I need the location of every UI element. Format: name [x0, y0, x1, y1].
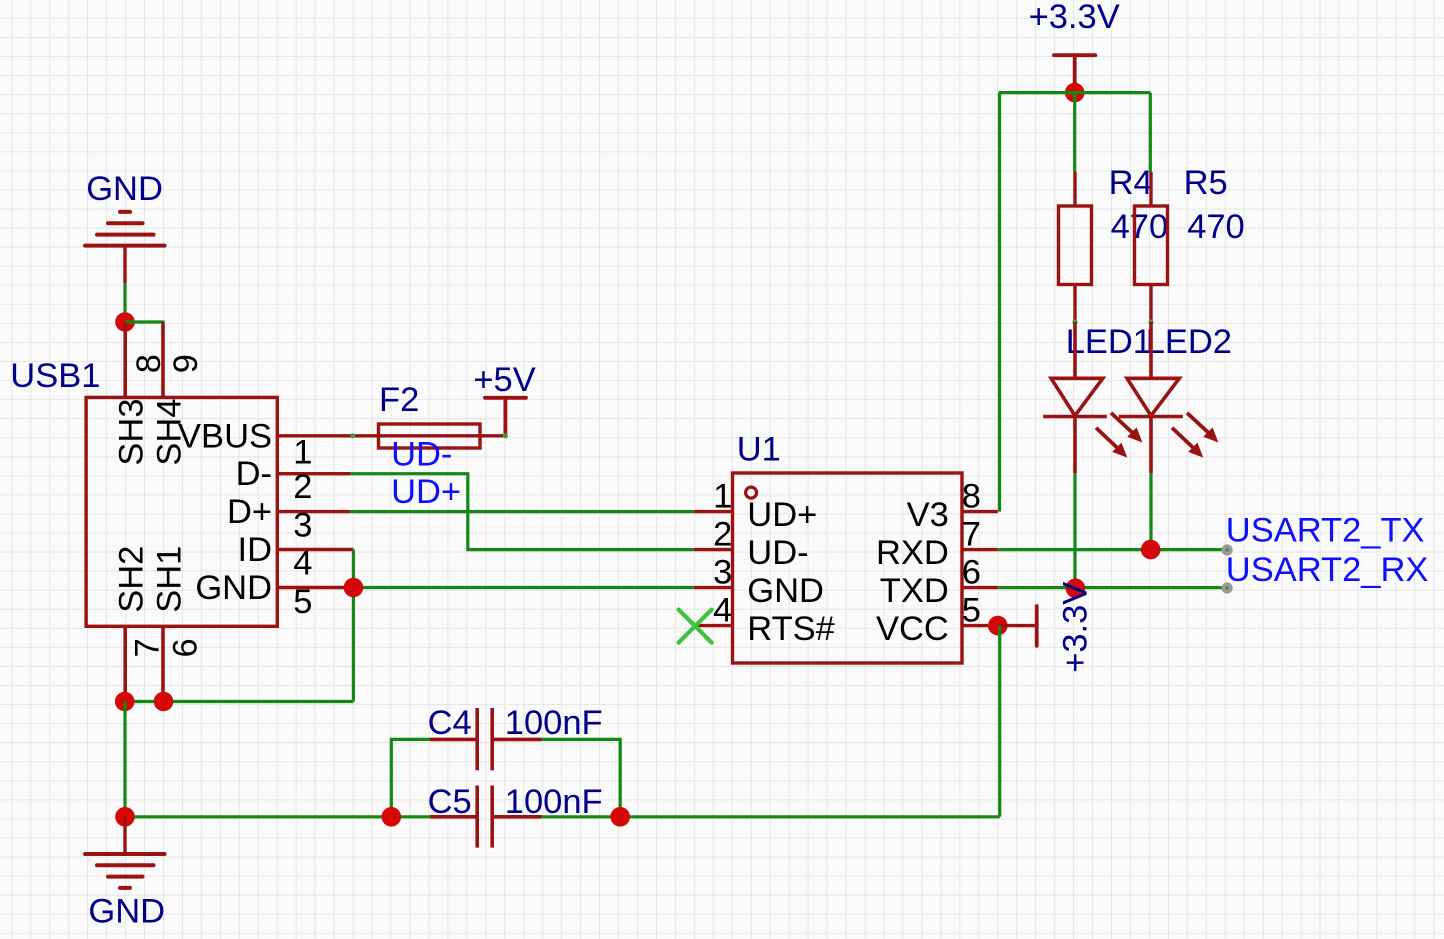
pin-end dot R5/LED2 [1148, 319, 1153, 324]
svg-text:UD-: UD- [391, 435, 452, 473]
svg-text:+5V: +5V [473, 361, 535, 399]
wire C4 right drop [542, 739, 621, 816]
svg-text:GND: GND [88, 893, 165, 931]
svg-text:+3.3V: +3.3V [1057, 582, 1095, 673]
svg-text:RTS#: RTS# [747, 610, 835, 648]
svg-text:SH2: SH2 [113, 546, 151, 613]
fuse F2 through-line and leads [353, 434, 506, 437]
ground GND (top-left) [85, 212, 165, 246]
capacitor C5 [430, 786, 542, 848]
U1 pin 8 [962, 510, 998, 513]
ground GND (bottom) [123, 817, 126, 854]
capacitor C4 [430, 708, 542, 770]
power +3.3V flag (top) [1054, 55, 1095, 92]
wire bottom rail left [125, 815, 430, 818]
svg-text:9: 9 [167, 354, 205, 373]
junction node J10 [1141, 540, 1161, 560]
svg-text:VBUS: VBUS [178, 417, 272, 455]
wire C4 left riser [391, 739, 430, 816]
pin-1 marker circle [746, 487, 757, 498]
svg-text:UD-: UD- [747, 534, 808, 572]
U1 pin 4 [694, 624, 733, 627]
U1 pin 3 [694, 586, 733, 589]
diode LED1 [1043, 322, 1107, 473]
svg-text:4: 4 [713, 592, 732, 630]
LED2 light arrows [1172, 413, 1218, 457]
resistor R5 [1135, 172, 1168, 322]
svg-text:5: 5 [293, 583, 312, 621]
svg-text:SH1: SH1 [151, 546, 189, 613]
svg-text:UD+: UD+ [747, 496, 817, 534]
junction node J5 [115, 807, 135, 827]
svg-text:UD+: UD+ [391, 473, 461, 511]
svg-text:U1: U1 [737, 430, 781, 468]
U1 pin 6 [962, 586, 998, 589]
power +5V flag [485, 398, 526, 436]
svg-text:ID: ID [238, 531, 273, 569]
U1 pin 2 [694, 548, 733, 551]
net port end RX [1222, 582, 1233, 593]
svg-text:LED2: LED2 [1146, 323, 1232, 361]
wire TXD to USART2_RX [998, 586, 1227, 589]
diode LED2 [1119, 322, 1183, 473]
svg-text:USART2_RX: USART2_RX [1226, 551, 1429, 589]
svg-text:R4: R4 [1109, 164, 1153, 202]
svg-text:1: 1 [713, 478, 732, 516]
LED1 light arrows [1096, 413, 1142, 457]
svg-text:2: 2 [713, 516, 732, 554]
junction node J8 (VCC) [988, 616, 1008, 636]
svg-text:TXD: TXD [880, 572, 949, 610]
svg-text:C4: C4 [428, 704, 472, 742]
svg-text:470: 470 [1111, 208, 1169, 246]
svg-text:2: 2 [293, 468, 312, 506]
pin stub from top ground [123, 245, 126, 283]
pin-end dot R4/LED1 [1072, 319, 1077, 324]
junction node J9 [1065, 83, 1085, 103]
svg-text:LED1: LED1 [1066, 323, 1152, 361]
svg-text:7: 7 [962, 516, 981, 554]
svg-text:F2: F2 [379, 381, 419, 419]
svg-text:R5: R5 [1184, 164, 1228, 202]
wire bottom row pins 6-7 [125, 700, 354, 703]
junction node J3 [115, 692, 135, 712]
svg-text:V3: V3 [907, 496, 949, 534]
svg-text:GND: GND [747, 572, 824, 610]
svg-text:7: 7 [129, 638, 167, 657]
svg-text:GND: GND [86, 170, 163, 208]
pin 5 GND [277, 586, 353, 589]
chip U1 body [733, 473, 963, 663]
wire node to pin9 [125, 320, 165, 323]
wire D+ to U1 pin1 [350, 510, 694, 513]
wire left column down [123, 702, 126, 817]
wire LED1 to TXD row [1073, 473, 1076, 588]
svg-text:6: 6 [962, 554, 981, 592]
pin 2 D- [277, 472, 350, 475]
svg-text:1: 1 [293, 434, 312, 472]
no-connect X on pin 4 [679, 610, 712, 643]
U1 pin 7 [962, 548, 998, 551]
net port end TX [1222, 544, 1233, 555]
pin 3 D+ [277, 510, 350, 513]
pin 8 (SH3) [123, 322, 127, 397]
wire ID down to bottom row [352, 550, 355, 702]
svg-text:VCC: VCC [876, 610, 949, 648]
pin 6 (SH1) [161, 626, 165, 701]
junction node J11 [1066, 579, 1086, 599]
svg-text:+3.3V: +3.3V [1029, 0, 1120, 36]
svg-text:3: 3 [713, 554, 732, 592]
connector USB1 body [86, 397, 277, 626]
U1 pin 5 [962, 624, 998, 627]
pin-end dot fuse right [503, 433, 508, 438]
svg-text:USB1: USB1 [10, 357, 100, 395]
wire ground to node [123, 283, 126, 322]
pin 9 (SH4) [161, 322, 165, 397]
junction node J4 [154, 692, 174, 712]
U1 pin 1 [694, 510, 733, 513]
pin-end dot fuse left [350, 433, 355, 438]
wire VCC down to bottom rail [998, 626, 1001, 817]
wire VCC to +3.3V flag [998, 624, 1035, 627]
junction node J1 [115, 312, 135, 332]
wire rail to R5 [1149, 93, 1152, 172]
wire rail to R4 [1073, 93, 1076, 172]
svg-text:GND: GND [195, 569, 272, 607]
svg-text:SH3: SH3 [113, 398, 151, 465]
wire rail to U1 pin8 [998, 93, 1001, 512]
junction node J7 [610, 807, 630, 827]
wire GND pin to U1 pin3 [353, 586, 693, 589]
fuse F2 body [379, 424, 481, 448]
svg-text:4: 4 [293, 545, 312, 583]
junction node J2 [344, 578, 364, 598]
resistor R4 [1059, 172, 1092, 322]
svg-text:D+: D+ [227, 493, 272, 531]
wire +3.3V rail [999, 91, 1151, 94]
power +3.3V flag (right, rotated) [1035, 606, 1039, 646]
svg-text:100nF: 100nF [505, 704, 603, 742]
svg-text:470: 470 [1187, 208, 1245, 246]
svg-text:6: 6 [167, 638, 205, 657]
wire D- to U1 pin2 [350, 474, 694, 550]
junction node J6 [382, 807, 402, 827]
pin 7 (SH2) [123, 626, 127, 701]
svg-text:USART2_TX: USART2_TX [1226, 511, 1425, 549]
svg-text:RXD: RXD [876, 534, 949, 572]
svg-text:D-: D- [236, 455, 272, 493]
svg-text:3: 3 [293, 506, 312, 544]
pin 4 ID [277, 548, 353, 551]
wire LED2 to RXD row [1149, 473, 1152, 549]
svg-text:8: 8 [962, 478, 981, 516]
wire RXD to USART2_TX [998, 548, 1227, 551]
wire bottom rail right [542, 815, 1000, 818]
pin 1 VBUS [277, 434, 352, 437]
svg-text:5: 5 [962, 592, 981, 630]
